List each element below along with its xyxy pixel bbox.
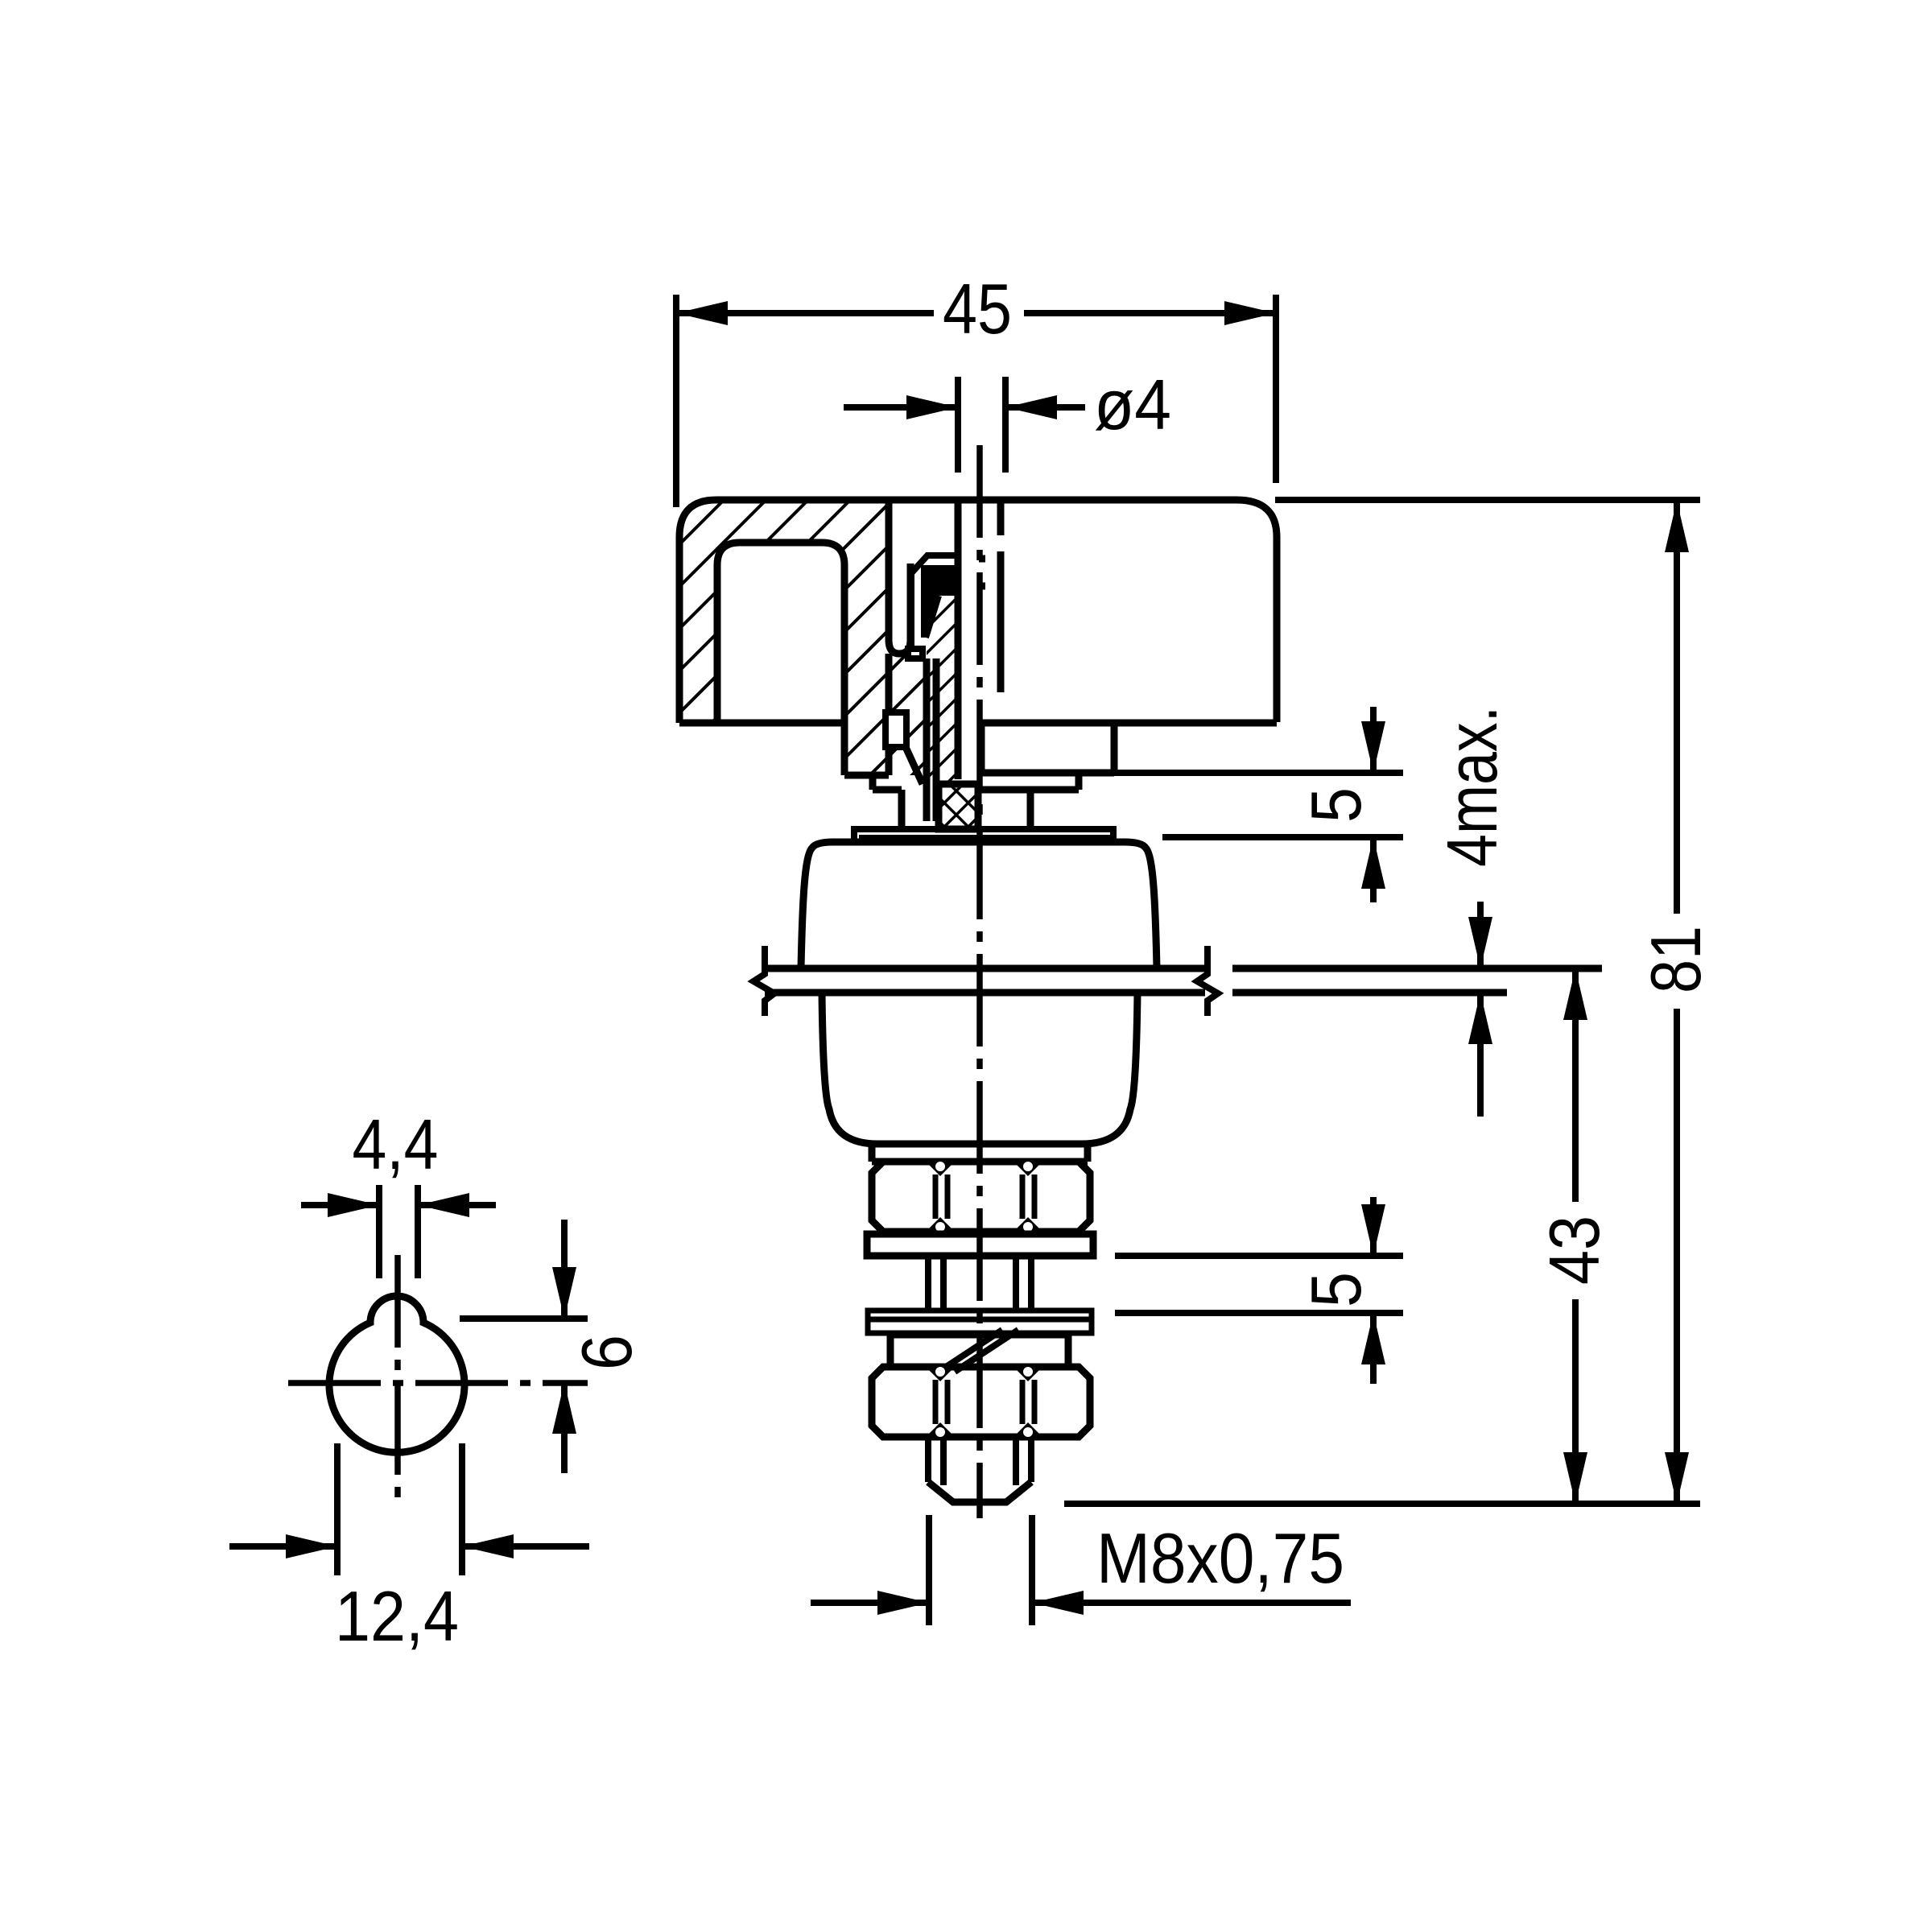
hub bottom bbox=[844, 723, 923, 829]
dim 12,4 bbox=[337, 1443, 462, 1575]
panel break left bbox=[753, 946, 774, 1016]
hub slot bbox=[889, 500, 910, 654]
bushing bbox=[872, 1144, 1088, 1162]
dome upper bbox=[801, 842, 1157, 968]
dim 45 bbox=[676, 295, 1276, 507]
sleeve lower lines bbox=[927, 658, 936, 821]
svg-text:ø4: ø4 bbox=[1094, 365, 1171, 444]
svg-text:6: 6 bbox=[567, 1335, 646, 1370]
hole view bbox=[329, 1296, 464, 1452]
svg-text:81: 81 bbox=[1636, 926, 1715, 993]
dim 6 bbox=[460, 1315, 588, 1322]
svg-text:4,4: 4,4 bbox=[353, 1104, 439, 1184]
dome lower bbox=[822, 993, 1137, 1144]
svg-text:43: 43 bbox=[1534, 1216, 1614, 1285]
dim M8 bbox=[929, 1515, 1032, 1625]
dim o4 bbox=[958, 377, 1005, 473]
svg-text:5: 5 bbox=[1296, 1272, 1376, 1307]
svg-text:45: 45 bbox=[943, 269, 1012, 349]
dim 5 upper bbox=[1114, 773, 1403, 837]
clamp cross-hatch bbox=[939, 784, 978, 829]
sleeve inner hatch bbox=[927, 594, 958, 784]
washer 1 bbox=[867, 1234, 1093, 1256]
hub lower hatch bbox=[889, 654, 927, 775]
stud end bbox=[928, 1437, 1031, 1485]
svg-text:M8x0,75: M8x0,75 bbox=[1096, 1518, 1344, 1598]
dim 81 bbox=[1064, 500, 1700, 1504]
socket sleeve section bbox=[921, 565, 957, 638]
dim 4max bbox=[1477, 902, 1484, 1117]
clamp box bbox=[939, 784, 978, 829]
collar right bbox=[981, 723, 1114, 828]
dim 4,4 bbox=[379, 1185, 418, 1278]
plug hole right bbox=[979, 500, 1001, 692]
panel left bbox=[765, 968, 1205, 993]
svg-text:5: 5 bbox=[1296, 787, 1376, 823]
dim 43 bbox=[1572, 968, 1579, 1504]
svg-text:4max.: 4max. bbox=[1432, 706, 1512, 867]
plug hole left bbox=[955, 500, 962, 779]
panel right bbox=[1232, 968, 1602, 993]
knob section hatch bbox=[679, 500, 889, 775]
dim 5 lower bbox=[1115, 1256, 1403, 1313]
socket sleeve flange bbox=[908, 555, 957, 658]
knob cavity bbox=[717, 543, 844, 723]
lock washer bbox=[890, 1335, 1068, 1367]
hex nut 2 bbox=[872, 1367, 1090, 1437]
svg-text:12,4: 12,4 bbox=[335, 1576, 459, 1656]
hub step notch bbox=[885, 712, 906, 747]
knob outline bbox=[679, 500, 1277, 723]
hub right edge bbox=[885, 654, 893, 775]
centerline main bbox=[976, 445, 983, 1518]
base plate bbox=[854, 829, 1113, 839]
washer 2 bbox=[868, 1311, 1092, 1333]
stud thread upper bbox=[928, 1256, 1031, 1312]
panel break right bbox=[1197, 946, 1218, 1016]
hex nut 1 bbox=[872, 1162, 1090, 1232]
